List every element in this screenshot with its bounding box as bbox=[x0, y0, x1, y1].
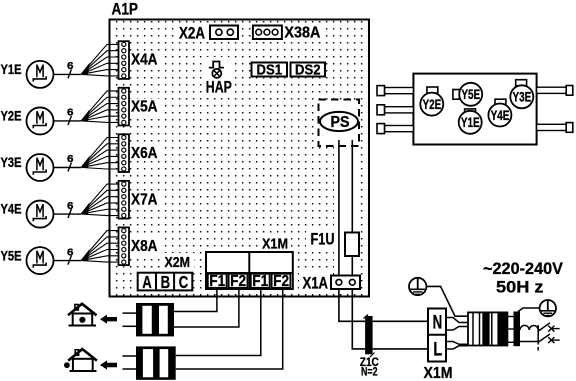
terminal block X1M on PCB (F1 F2 F1 F2) bbox=[206, 252, 293, 290]
svg-text:DS1: DS1 bbox=[257, 61, 283, 78]
svg-text:Y5E: Y5E bbox=[1, 248, 22, 263]
wire Y2E to X5A with 6-core marker bbox=[54, 91, 122, 125]
wire Y5E to X8A with 6-core marker bbox=[54, 231, 122, 265]
svg-text:Y5E: Y5E bbox=[461, 87, 480, 102]
label X1M (mains) bbox=[424, 365, 453, 381]
swing motor Y4E bbox=[1, 201, 54, 228]
label X2M bbox=[165, 255, 191, 271]
svg-text:HAP: HAP bbox=[206, 78, 232, 97]
svg-text:Y1E: Y1E bbox=[461, 115, 480, 130]
swing motor Y3E bbox=[1, 154, 54, 181]
svg-text:6: 6 bbox=[67, 107, 74, 119]
svg-text:X1M: X1M bbox=[424, 365, 453, 381]
svg-text:X1A: X1A bbox=[303, 274, 329, 293]
connector X2A label bbox=[179, 24, 205, 43]
solenoid valve coil box bbox=[413, 74, 536, 145]
arrow to house 2 bbox=[100, 360, 117, 369]
pin right 2 bbox=[537, 123, 573, 133]
label X8A bbox=[131, 238, 158, 255]
svg-text:X2M: X2M bbox=[165, 255, 191, 271]
svg-text:6: 6 bbox=[67, 60, 74, 72]
svg-text:DS2: DS2 bbox=[295, 61, 321, 78]
svg-text:X4A: X4A bbox=[131, 52, 158, 69]
wire F2a down to ferrite 1 bbox=[174, 289, 239, 327]
indoor unit house 1 bbox=[68, 304, 97, 326]
label X4A bbox=[131, 52, 158, 69]
wire X1A pin1 to N (below board) bbox=[339, 289, 365, 321]
svg-text:Y3E: Y3E bbox=[1, 155, 22, 170]
connector X8A (6-pin) bbox=[119, 227, 130, 265]
wire F1b down to ferrite 2 bbox=[176, 289, 261, 356]
wire PS left to X1A pin1 bbox=[338, 140, 340, 282]
wire Y3E to X6A with 6-core marker bbox=[54, 138, 122, 172]
svg-text:Y4E: Y4E bbox=[491, 108, 510, 123]
svg-text:F1: F1 bbox=[252, 273, 268, 290]
svg-text:PS: PS bbox=[331, 114, 350, 131]
clearance backgrounds over dot grid bbox=[129, 23, 356, 291]
svg-text:L: L bbox=[433, 339, 442, 361]
label F1U bbox=[311, 230, 335, 249]
DIP switch DS1 bbox=[252, 61, 288, 78]
svg-text:B: B bbox=[161, 272, 171, 292]
terminal block X2M (A B C) bbox=[138, 272, 193, 292]
svg-text:X2A: X2A bbox=[179, 24, 205, 43]
wire Z1C to L terminal bbox=[373, 348, 428, 350]
swing motor Y5E bbox=[1, 247, 54, 274]
solenoid coil Y3E bbox=[510, 80, 533, 109]
svg-text:6: 6 bbox=[67, 153, 74, 165]
label X5A bbox=[131, 98, 158, 115]
power supply PS module (dashed box) bbox=[319, 100, 360, 147]
svg-text:F1U: F1U bbox=[311, 230, 335, 249]
swing motor Y2E bbox=[1, 107, 54, 134]
pin right 1 bbox=[537, 86, 573, 96]
svg-text:F2: F2 bbox=[273, 273, 289, 290]
ferrite core filter 1 bbox=[123, 303, 175, 336]
DIP switch DS2 bbox=[291, 61, 326, 78]
connector X2A (2-pin) bbox=[210, 26, 238, 40]
N wire funnel to cable bbox=[446, 318, 468, 331]
earth symbol (left) bbox=[409, 278, 426, 295]
cable end (dashed) bbox=[537, 325, 539, 353]
label X7A bbox=[131, 191, 158, 208]
earth symbol (right) bbox=[540, 300, 556, 316]
connector X4A (6-pin) bbox=[119, 41, 130, 79]
wire F1a down to ferrite 1 bbox=[174, 289, 217, 312]
cut wire 1 with x mark bbox=[538, 323, 560, 332]
wire Y1E to X4A with 6-core marker bbox=[54, 44, 122, 78]
L wire funnel to cable bbox=[446, 342, 468, 350]
svg-text:X6A: X6A bbox=[131, 145, 158, 162]
svg-text:A: A bbox=[142, 272, 152, 292]
svg-text:6: 6 bbox=[67, 200, 74, 212]
indoor unit house 2 bbox=[64, 349, 97, 371]
svg-text:F2: F2 bbox=[230, 273, 246, 290]
wire F2b down to ferrite 2 bbox=[176, 289, 283, 369]
svg-text:50H z: 50H z bbox=[496, 278, 544, 297]
ferrite core on supply cable bbox=[514, 312, 521, 347]
arrow to house 1 bbox=[100, 315, 117, 324]
label X1M (PCB terminal) bbox=[262, 237, 288, 253]
svg-text:X5A: X5A bbox=[131, 98, 158, 115]
ferrite Z1C bbox=[364, 315, 375, 358]
wire X1A pin2 to L (below board) bbox=[352, 289, 365, 349]
svg-text:Y4E: Y4E bbox=[1, 202, 22, 217]
terminal block X1M (N L) bbox=[428, 309, 446, 362]
svg-text:Y2E: Y2E bbox=[1, 109, 22, 124]
label X6A bbox=[131, 145, 158, 162]
label X1A bbox=[303, 274, 329, 293]
label Z1C N=2 bbox=[360, 355, 379, 379]
label X38A bbox=[284, 25, 320, 42]
svg-text:X7A: X7A bbox=[131, 191, 158, 208]
svg-text:F1: F1 bbox=[209, 273, 225, 290]
fuse F1U bbox=[345, 233, 359, 257]
svg-text:X1M: X1M bbox=[262, 237, 288, 253]
label ~220-240V bbox=[483, 259, 564, 278]
svg-text:Y2E: Y2E bbox=[423, 97, 442, 112]
swing motor Y1E bbox=[1, 61, 54, 88]
connector X5A (6-pin) bbox=[119, 88, 130, 126]
earth wire to supply cable bbox=[426, 286, 468, 316]
solenoid coil Y1E bbox=[459, 109, 482, 134]
svg-text:Y3E: Y3E bbox=[513, 90, 532, 105]
solenoid coil Y5E bbox=[453, 83, 482, 106]
svg-text:X8A: X8A bbox=[131, 238, 158, 255]
earth wire to plug earth bbox=[518, 308, 540, 312]
pin left 2 bbox=[377, 105, 413, 115]
cable wires to ferrite bbox=[507, 317, 513, 343]
wire Y4E to X7A with 6-core marker bbox=[54, 184, 122, 218]
pin left 1 bbox=[377, 86, 413, 96]
solenoid coil Y4E bbox=[488, 99, 511, 126]
svg-text:Y1E: Y1E bbox=[1, 62, 22, 77]
wire PS right to fuse bbox=[351, 140, 353, 282]
svg-text:6: 6 bbox=[67, 246, 74, 258]
pin left 3 bbox=[377, 124, 413, 134]
cut wire 2 with x mark bbox=[538, 334, 560, 343]
svg-text:N: N bbox=[433, 312, 443, 334]
svg-text:N=2: N=2 bbox=[361, 365, 378, 379]
connector X1A (2-pin) bbox=[331, 276, 360, 290]
label A1P bbox=[110, 0, 142, 19]
ferrite core filter 2 bbox=[123, 346, 176, 379]
supply cable sheath (striped) bbox=[468, 312, 507, 345]
coiled cable loops bbox=[520, 325, 538, 341]
connector X6A (6-pin) bbox=[119, 134, 130, 172]
label 50Hz bbox=[496, 278, 544, 297]
wire Z1C to N terminal bbox=[373, 320, 428, 322]
connector X7A (6-pin) bbox=[119, 181, 130, 219]
label HAP bbox=[206, 78, 232, 97]
svg-text:~220-240V: ~220-240V bbox=[483, 259, 564, 278]
svg-text:X38A: X38A bbox=[284, 25, 320, 42]
PCB A1P board outline with dotted grid bbox=[110, 20, 370, 297]
connector X38A (3-pin) bbox=[253, 26, 282, 40]
LED HAP symbol (pulse + circle-X) bbox=[209, 62, 224, 78]
svg-text:C: C bbox=[179, 272, 189, 292]
solenoid coil Y2E bbox=[420, 87, 443, 116]
svg-text:A1P: A1P bbox=[112, 0, 139, 19]
